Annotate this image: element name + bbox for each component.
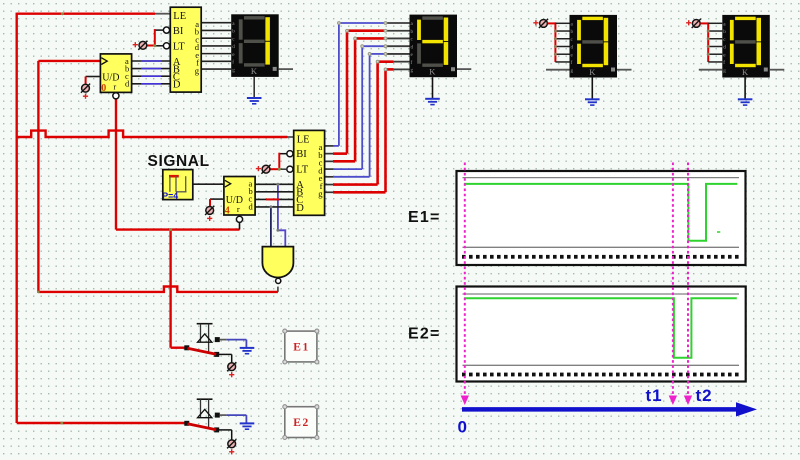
- wire: LE branch to decoder U4 LE with hops: [17, 131, 294, 137]
- cursor line 0 (magenta dashed): [461, 163, 469, 406]
- power terminal + for U3 U/D: [205, 206, 214, 221]
- wire: U4.f to DS2.f (red): [325, 60, 410, 184]
- svg-text:LT: LT: [296, 165, 308, 176]
- decoder U2 (BCD to 7-seg): [170, 7, 201, 92]
- svg-text:P=4: P=4: [162, 191, 178, 201]
- wire: U4.c to DS2.c (red): [325, 37, 410, 161]
- wire: U4 BI/LT tie to + terminal: [270, 153, 287, 171]
- wire: U2 outputs a-g to display DS1 pins: [201, 23, 231, 69]
- svg-text:BI: BI: [173, 26, 184, 37]
- display DS4 (7-segment, showing 0): [722, 15, 770, 78]
- time axis blue arrow: [462, 402, 757, 416]
- wire: DS4 g-pin stub: [699, 69, 723, 71]
- chart E2 frame: [457, 287, 746, 382]
- svg-text:f: f: [571, 59, 573, 66]
- svg-text:r: r: [237, 204, 240, 214]
- svg-text:t2: t2: [696, 386, 713, 405]
- label E1=: [408, 209, 441, 226]
- svg-text:E1: E1: [293, 342, 309, 354]
- wire: U2 BI/LT tie to + terminal: [147, 29, 163, 47]
- wire: U3 outputs a-d to U4 inputs A-D: [255, 183, 294, 209]
- display DS1 (7-segment, showing 1): [231, 14, 279, 77]
- svg-text:K: K: [589, 67, 596, 77]
- svg-text:4: 4: [225, 206, 230, 217]
- label box E2: [283, 405, 319, 440]
- switch E1 (SPDT, selects +): [184, 324, 246, 364]
- cursor line t1 (magenta dashed): [669, 163, 677, 406]
- wire: signal generator output to counter U3 clock: [193, 183, 224, 185]
- bubble U4.BI: [287, 151, 293, 157]
- svg-text:D: D: [173, 80, 181, 91]
- signal generator SIGNAL (P=4): [163, 170, 193, 200]
- wire: U4.a to DS2.a (blue): [325, 22, 410, 146]
- wire: U4.d to DS2.d (blue): [325, 45, 410, 169]
- chart E2 dotted time axis: [462, 373, 739, 377]
- wire: LE net from switch E2 to decoder U2 LE (red, left bus): [17, 12, 185, 424]
- svg-text:d: d: [232, 44, 235, 50]
- svg-text:E2=: E2=: [408, 326, 441, 343]
- chart E1 green trace (high, dip at t2): [464, 184, 737, 241]
- wire: + feed to DS3 pins a-f (red): [548, 22, 570, 62]
- wire: DS2 cathode K to ground: [432, 77, 434, 99]
- cursor line t2 (magenta dashed): [684, 163, 692, 406]
- svg-text:b: b: [723, 29, 726, 35]
- reset bubble U1.r: [113, 93, 119, 99]
- ground for DS3: [585, 99, 600, 105]
- wire: DS3 cathode K to ground: [591, 78, 593, 100]
- display DS3 (7-segment, showing 0): [570, 15, 618, 78]
- ground for switch E2: [240, 423, 255, 429]
- svg-text:0: 0: [101, 83, 106, 94]
- svg-text:U/D: U/D: [102, 73, 119, 84]
- svg-text:K: K: [742, 67, 749, 77]
- chart E2 bottom rail: [463, 364, 740, 366]
- chart E2 top rail: [463, 293, 740, 295]
- wire: U4.g to DS2.g (red): [325, 68, 410, 192]
- svg-text:SIGNAL: SIGNAL: [148, 153, 210, 170]
- svg-text:BI: BI: [296, 149, 307, 160]
- power terminal + for U1 U/D: [81, 84, 90, 99]
- label 0 (time origin): [458, 418, 467, 437]
- wire: DS3 g-pin stub: [546, 69, 570, 71]
- chart E1 top rail: [463, 177, 740, 179]
- svg-text:K: K: [429, 67, 436, 77]
- chart E1 bottom rail: [463, 246, 740, 248]
- svg-text:0: 0: [458, 418, 467, 437]
- wire: NAND output to counter U1 clock (red loop, hop over E1 wire): [37, 61, 278, 293]
- svg-text:K: K: [251, 66, 258, 76]
- wire: U3.a to NAND input 2 (blue, jog): [276, 184, 285, 246]
- ground for DS2: [425, 99, 440, 105]
- ground for switch E1: [240, 348, 255, 354]
- svg-text:g: g: [195, 65, 200, 75]
- counter U3 (U/D counter, value 4): [224, 177, 255, 217]
- power terminal + for switch E2: [227, 439, 236, 454]
- wire: U3.d to NAND input 1 (navy): [270, 207, 272, 247]
- wire: + feed to DS4 pins a-f (red): [700, 22, 722, 62]
- wire: DS4 cathode K to ground: [744, 78, 746, 100]
- reset bubble U3.r: [236, 216, 242, 222]
- svg-text:b: b: [571, 29, 574, 35]
- svg-text:d: d: [411, 44, 414, 50]
- svg-text:g: g: [723, 68, 726, 74]
- label box E1: [283, 329, 319, 364]
- switch E2 (SPDT, selects +): [184, 399, 246, 439]
- wire: DS4 decimal point stub: [770, 69, 785, 71]
- svg-text:LE: LE: [297, 134, 310, 145]
- svg-text:g: g: [571, 68, 574, 74]
- label t2: [696, 386, 713, 405]
- power terminal + for DS4: [686, 19, 701, 28]
- svg-text:b: b: [232, 29, 235, 35]
- svg-text:LE: LE: [173, 11, 186, 22]
- wire: DS2 decimal point stub: [457, 68, 471, 70]
- chart E1 frame: [457, 171, 746, 265]
- svg-text:d: d: [571, 45, 574, 51]
- label P=4: [162, 191, 178, 201]
- svg-text:g: g: [232, 67, 235, 73]
- wire: U4.e to DS2.e (blue): [325, 53, 410, 177]
- svg-text:r: r: [113, 81, 116, 91]
- wire: DS1 cathode K to ground: [253, 77, 255, 98]
- svg-text:t1: t1: [646, 386, 663, 405]
- svg-text:f: f: [723, 59, 725, 66]
- counter U1 (U/D counter, value 0): [100, 54, 131, 94]
- svg-text:f: f: [232, 59, 234, 66]
- svg-text:g: g: [318, 188, 323, 198]
- display DS2 (7-segment, showing 4): [410, 15, 458, 78]
- svg-text:b: b: [411, 29, 414, 35]
- label t1: [646, 386, 663, 405]
- svg-text:f: f: [411, 59, 413, 66]
- chart E1 stray green tick: [717, 231, 720, 233]
- svg-text:E1=: E1=: [408, 209, 441, 226]
- power terminal + for DS3: [533, 19, 548, 28]
- wire: U3 U/D pin to + terminal: [210, 199, 224, 206]
- svg-text:LT: LT: [173, 41, 185, 52]
- svg-text:D: D: [296, 203, 304, 214]
- power terminal + for switch E1: [227, 362, 236, 377]
- bubble U5 output: [276, 278, 281, 283]
- power terminal + for U4 BI/LT: [256, 165, 271, 174]
- ground for DS1: [247, 98, 262, 104]
- bubble U4.LT: [287, 166, 293, 172]
- svg-text:U/D: U/D: [226, 195, 243, 206]
- svg-text:d: d: [723, 45, 726, 51]
- decoder U4 (BCD to 7-seg): [294, 130, 325, 215]
- wire: U4.b to DS2.b (red): [325, 29, 410, 153]
- label E2=: [408, 326, 441, 343]
- chart E1 dotted time axis: [462, 255, 739, 259]
- svg-text:E2: E2: [293, 417, 309, 429]
- svg-text:g: g: [411, 68, 414, 74]
- bubble U2.BI: [163, 27, 169, 33]
- wire: U1 U/D pin to + terminal: [86, 77, 101, 85]
- label SIGNAL: [148, 153, 210, 170]
- wire: DS3 decimal point stub: [617, 69, 632, 71]
- bubble U2.LT: [163, 43, 169, 49]
- power terminal + for U2 BI/LT: [133, 41, 148, 50]
- chart E2 green trace (high, dip at t1): [464, 298, 737, 358]
- NAND gate U5: [262, 247, 293, 278]
- ground for DS4: [738, 99, 753, 105]
- wire: DS1 decimal point stub: [279, 68, 293, 70]
- wire: U1 outputs a-d to U2 inputs A-D: [132, 61, 171, 84]
- wire: reset net E1 switch to U1.r and U3.r (red): [116, 99, 240, 348]
